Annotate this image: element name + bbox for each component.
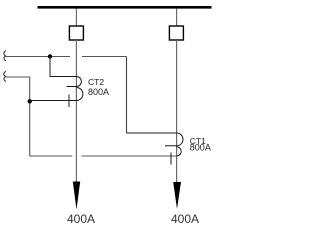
CT2 current transformer (top hook + mid tap) bbox=[50, 77, 81, 87]
wire: line B left segment bbox=[6, 77, 30, 156]
wire: line A vertical drop to CT1 bbox=[126, 57, 128, 134]
node: junction dot on line A bbox=[48, 54, 52, 58]
load arrow right bbox=[173, 182, 181, 209]
wire: left feeder drop from bus to breaker bbox=[75, 9, 77, 27]
CT2 bottom hook and secondary lead to junction dot bbox=[30, 88, 83, 101]
breaker/fuse box right bbox=[169, 26, 183, 40]
svg-text:800A: 800A bbox=[88, 87, 109, 97]
wire: line A right segment (after crossover gap) bbox=[82, 56, 127, 58]
node: junction dot on line B bbox=[28, 99, 32, 103]
CT1 bottom hook joining bottom lead bbox=[177, 147, 182, 156]
wire: branch from junction dot down to CT2 top bbox=[50, 57, 76, 77]
svg-text:400A: 400A bbox=[67, 212, 95, 226]
svg-text:800A: 800A bbox=[190, 143, 211, 153]
CT2 secondary tick mark bbox=[68, 95, 70, 108]
break squiggle lower-left (line B entry) bbox=[4, 71, 6, 81]
wire: right feeder from breaker down to arrow bbox=[176, 40, 178, 182]
break squiggle top-left (line A entry) bbox=[4, 51, 6, 61]
svg-text:400A: 400A bbox=[171, 212, 199, 226]
CT1 current transformer (top hook + mid tap) bbox=[127, 133, 184, 146]
wire: left feeder from breaker down to arrow bbox=[75, 40, 77, 182]
wire: line A horizontal to CT1 top bbox=[127, 132, 177, 134]
wire: right feeder drop from bus to breaker bbox=[176, 9, 178, 27]
bus bar bbox=[38, 6, 212, 9]
wire: line B bottom run after gap to CT1 bottom bbox=[82, 155, 177, 157]
wire: line B bottom run to crossover gap bbox=[30, 155, 73, 157]
CT1 secondary tick mark bbox=[170, 153, 172, 165]
wire: line A left segment bbox=[6, 56, 70, 58]
breaker/fuse box left bbox=[69, 26, 83, 40]
svg-text:CT2: CT2 bbox=[88, 77, 104, 87]
load arrow left bbox=[73, 182, 80, 210]
